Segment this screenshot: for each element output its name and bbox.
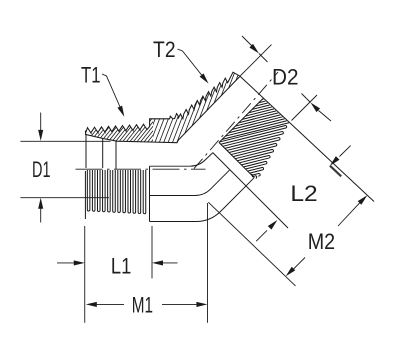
D1 upper arrowhead: [38, 130, 43, 141]
thread T1/T2 upper profile band outline: [86, 72, 241, 143]
45-deg thread upper edge: [219, 99, 263, 143]
body outline lower: [150, 178, 255, 222]
D2 upper arrow tail: [242, 36, 253, 47]
45-deg thread tip face + L2/M2 extension: [240, 76, 374, 201]
svg-text:T1: T1: [81, 63, 101, 88]
svg-text:L2: L2: [290, 181, 317, 206]
L2 upper arrowhead: [330, 156, 340, 166]
body outline upper: [150, 153, 213, 167]
D2 lower arrow tail: [319, 111, 332, 122]
T1 arrowhead: [117, 106, 124, 117]
D2 lower arrowhead: [311, 103, 321, 113]
L1 left arrowhead: [74, 260, 85, 265]
D1 upper arrow tail: [40, 113, 42, 134]
D2 lower extension line: [292, 95, 318, 121]
M2 lower extension line (from vertex): [208, 202, 295, 286]
svg-text:T2: T2: [153, 37, 176, 62]
body end face edge: [149, 166, 151, 221]
leader T2: [178, 49, 205, 78]
thread profile hatching: [80, 67, 281, 150]
L1/M1 left extension line: [84, 226, 86, 323]
L2 lower arrow tail: [256, 230, 267, 241]
shoulder edge / L2 extension: [213, 153, 288, 228]
thread T1 illustration (vertical thread lines): [87, 170, 145, 214]
D1 lower extension line: [20, 197, 109, 199]
M1 dim line left part: [95, 303, 124, 305]
M2 dim line upper part: [338, 202, 361, 226]
D2 upper extension line: [240, 45, 271, 76]
svg-text:M2: M2: [308, 229, 335, 254]
M2 dim line lower part: [292, 258, 305, 271]
svg-text:D1: D1: [32, 157, 51, 182]
L2 dim overlap mark: [330, 166, 341, 177]
M2 upper arrowhead: [358, 195, 368, 205]
L1 right arrow tail: [161, 262, 178, 264]
centerline 45-deg: [194, 72, 278, 169]
L1 right extension line: [151, 226, 153, 278]
svg-text:M1: M1: [132, 293, 153, 318]
D2 dim line stub lower: [302, 94, 311, 103]
centerline horizontal: [76, 168, 206, 170]
wire: [115, 141, 117, 169]
thread left edge: [84, 171, 86, 219]
45-deg thread base face: [219, 143, 254, 178]
body outline middle (hex edge): [150, 170, 230, 195]
M1 right extension line: [207, 203, 209, 323]
M1 right arrowhead: [196, 302, 207, 307]
D2 upper arrowhead: [249, 44, 259, 54]
L2 upper arrow tail: [340, 146, 351, 157]
svg-text:L1: L1: [111, 253, 131, 278]
T2 arrowhead: [200, 73, 209, 83]
leader T1: [102, 74, 122, 112]
M1 left arrowhead: [86, 302, 97, 307]
wire: [85, 134, 87, 168]
L1 right arrowhead: [152, 260, 163, 265]
L2 lower arrowhead: [268, 220, 278, 230]
D1 lower arrowhead: [38, 198, 43, 209]
D1 upper extension line: [20, 140, 110, 142]
M2 lower arrowhead: [286, 267, 296, 277]
svg-text:D2: D2: [272, 65, 299, 90]
D2 dim line stub upper: [259, 54, 268, 63]
M1 dim line right part: [162, 303, 196, 305]
thread T2 illustration (45-deg thread lines): [220, 99, 289, 178]
wire: [102, 139, 104, 169]
D1 lower arrow tail: [40, 205, 42, 223]
L1 left arrow tail: [57, 262, 76, 264]
